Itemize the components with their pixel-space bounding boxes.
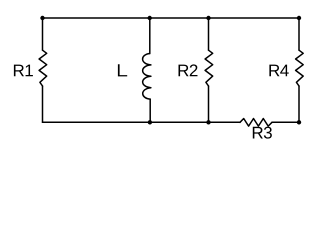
junction node F bottom of L xyxy=(148,120,152,124)
junction node G bottom of R2 xyxy=(206,120,210,124)
junction node C top of R2 xyxy=(206,16,210,20)
wire right lead of R3 xyxy=(272,121,299,123)
wire bottom-left corner vertical lead of R1 xyxy=(42,18,44,50)
junction node D top-right xyxy=(297,16,301,20)
wire top rail segment B-C xyxy=(150,17,209,19)
junction node H bottom-right xyxy=(297,120,301,124)
resistor R3 xyxy=(240,119,272,127)
junction node B top of L xyxy=(148,16,152,20)
label L xyxy=(118,64,127,76)
wire lower lead of R2 xyxy=(208,86,210,122)
resistor R4 xyxy=(296,50,304,86)
label R1 xyxy=(14,65,33,77)
wire upper lead of R4 xyxy=(298,18,300,50)
resistor R1 xyxy=(39,50,47,86)
inductor L xyxy=(143,54,151,100)
resistor R2 xyxy=(205,50,213,86)
wire bottom rail segment E-F xyxy=(43,121,150,123)
junction node A top-left xyxy=(40,16,44,20)
wire lower lead of L xyxy=(149,99,151,122)
wire left lead of R3 xyxy=(209,121,241,123)
label R3 xyxy=(253,127,272,139)
wire top rail segment A-B xyxy=(43,17,150,19)
wire upper lead of L xyxy=(149,18,151,54)
wire lower lead of R4 xyxy=(298,86,300,122)
wire lower lead of R1 xyxy=(42,86,44,122)
wire bottom rail segment F-G xyxy=(150,121,209,123)
wire top rail segment C-D xyxy=(209,17,300,19)
label R2 xyxy=(178,64,197,76)
label R4 xyxy=(269,65,288,77)
wire upper lead of R2 xyxy=(208,18,210,50)
